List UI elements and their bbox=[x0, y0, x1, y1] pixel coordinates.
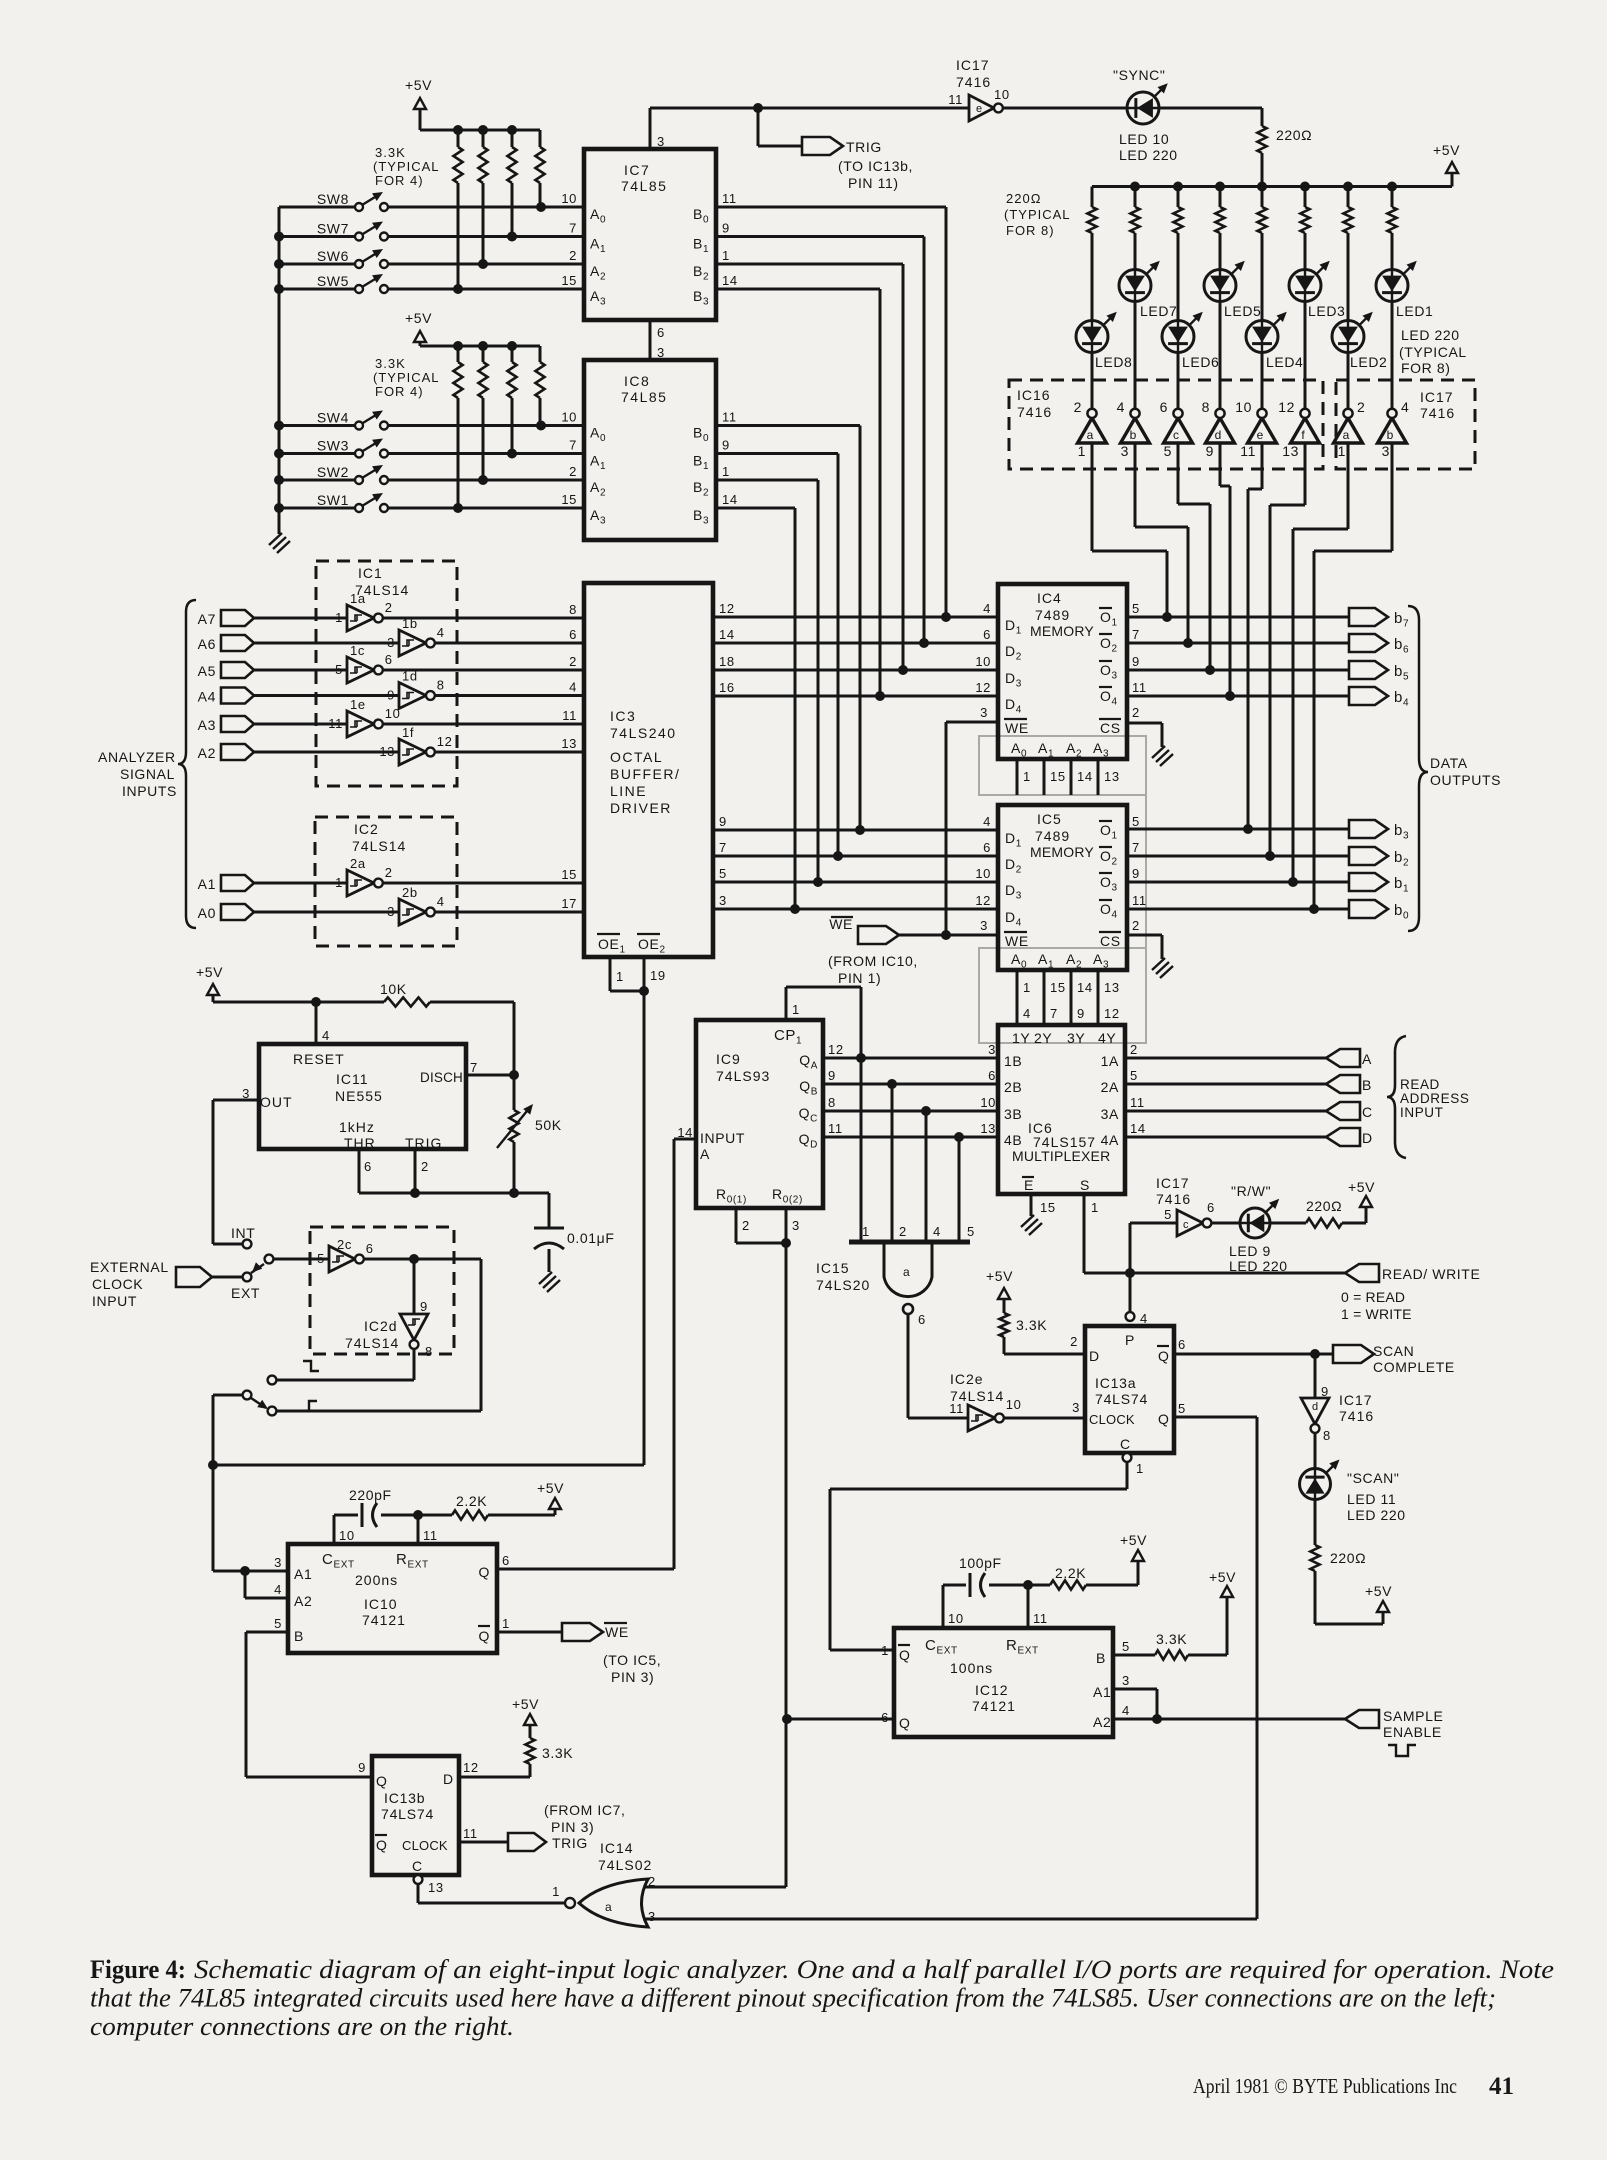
svg-text:2: 2 bbox=[569, 654, 577, 669]
svg-text:IC2d: IC2d bbox=[364, 1318, 398, 1334]
svg-text:6: 6 bbox=[983, 627, 991, 642]
svg-text:TRIG: TRIG bbox=[405, 1135, 442, 1151]
svg-text:3.3K: 3.3K bbox=[1156, 1631, 1187, 1647]
svg-text:74LS74: 74LS74 bbox=[381, 1806, 434, 1822]
svg-text:12: 12 bbox=[1278, 399, 1295, 415]
svg-text:19: 19 bbox=[650, 968, 666, 983]
svg-text:2.2K: 2.2K bbox=[456, 1493, 487, 1509]
svg-text:3B: 3B bbox=[1004, 1106, 1022, 1122]
svg-text:7416: 7416 bbox=[1420, 405, 1455, 421]
svg-text:A7: A7 bbox=[198, 611, 216, 627]
svg-text:6: 6 bbox=[502, 1553, 510, 1568]
svg-text:12: 12 bbox=[719, 601, 735, 616]
svg-text:7: 7 bbox=[719, 840, 727, 855]
svg-text:2a: 2a bbox=[350, 856, 366, 871]
svg-text:INPUTS: INPUTS bbox=[122, 783, 177, 799]
svg-text:10: 10 bbox=[385, 706, 401, 721]
svg-text:11: 11 bbox=[828, 1121, 843, 1136]
svg-text:(TYPICAL: (TYPICAL bbox=[373, 370, 440, 385]
svg-text:2: 2 bbox=[1132, 705, 1140, 720]
svg-text:IC5: IC5 bbox=[1037, 811, 1062, 827]
svg-text:A2: A2 bbox=[1093, 1714, 1111, 1730]
svg-text:LED 9: LED 9 bbox=[1229, 1243, 1271, 1259]
svg-text:13: 13 bbox=[1104, 769, 1120, 784]
svg-text:15: 15 bbox=[1050, 980, 1066, 995]
svg-text:6: 6 bbox=[1160, 399, 1168, 415]
svg-text:12: 12 bbox=[463, 1760, 479, 1775]
svg-text:FOR 8): FOR 8) bbox=[1401, 360, 1451, 376]
svg-text:IC9: IC9 bbox=[716, 1051, 741, 1067]
svg-text:Q: Q bbox=[1158, 1348, 1170, 1364]
svg-text:0.01μF: 0.01μF bbox=[567, 1230, 614, 1246]
svg-text:9: 9 bbox=[828, 1068, 836, 1083]
svg-text:2: 2 bbox=[1132, 918, 1140, 933]
svg-text:3.3K: 3.3K bbox=[375, 356, 406, 371]
svg-text:1kHz: 1kHz bbox=[339, 1119, 375, 1135]
svg-text:3A: 3A bbox=[1101, 1106, 1119, 1122]
svg-text:14: 14 bbox=[719, 627, 735, 642]
svg-text:11: 11 bbox=[948, 92, 963, 107]
svg-text:NE555: NE555 bbox=[335, 1088, 383, 1104]
svg-text:5: 5 bbox=[1132, 601, 1140, 616]
svg-text:PIN 1): PIN 1) bbox=[838, 970, 881, 986]
svg-text:(FROM IC10,: (FROM IC10, bbox=[828, 953, 918, 969]
svg-text:8: 8 bbox=[425, 1344, 433, 1359]
svg-text:4: 4 bbox=[569, 680, 577, 695]
svg-text:3Y: 3Y bbox=[1067, 1030, 1085, 1046]
svg-text:SW7: SW7 bbox=[317, 221, 349, 237]
svg-text:8: 8 bbox=[569, 602, 577, 617]
svg-text:10: 10 bbox=[339, 1528, 355, 1543]
svg-text:6: 6 bbox=[1207, 1200, 1215, 1215]
svg-text:1: 1 bbox=[1091, 1200, 1099, 1215]
svg-text:5: 5 bbox=[1178, 1401, 1186, 1416]
svg-text:13: 13 bbox=[379, 744, 395, 759]
svg-text:(FROM IC7,: (FROM IC7, bbox=[544, 1802, 625, 1818]
svg-text:220pF: 220pF bbox=[349, 1487, 392, 1503]
svg-text:+5V: +5V bbox=[1348, 1179, 1375, 1195]
svg-text:CLOCK: CLOCK bbox=[402, 1838, 448, 1853]
svg-text:4A: 4A bbox=[1101, 1132, 1119, 1148]
svg-text:7489: 7489 bbox=[1035, 607, 1070, 623]
svg-text:e: e bbox=[1257, 428, 1264, 442]
svg-text:LED3: LED3 bbox=[1308, 303, 1345, 319]
svg-text:+5V: +5V bbox=[405, 310, 432, 326]
svg-text:(TYPICAL: (TYPICAL bbox=[1399, 344, 1467, 360]
svg-text:LED 11: LED 11 bbox=[1347, 1491, 1396, 1507]
svg-text:5: 5 bbox=[1132, 814, 1140, 829]
svg-text:3: 3 bbox=[1122, 1673, 1130, 1688]
svg-text:74LS93: 74LS93 bbox=[716, 1068, 770, 1084]
svg-text:DISCH: DISCH bbox=[420, 1070, 463, 1085]
svg-text:3.3K: 3.3K bbox=[1016, 1317, 1047, 1333]
svg-text:10K: 10K bbox=[380, 981, 407, 997]
svg-text:1: 1 bbox=[552, 1884, 560, 1899]
svg-text:13: 13 bbox=[428, 1880, 444, 1895]
svg-text:6: 6 bbox=[364, 1159, 372, 1174]
svg-text:1: 1 bbox=[335, 875, 343, 890]
svg-text:+5V: +5V bbox=[1209, 1569, 1236, 1585]
svg-text:FOR 8): FOR 8) bbox=[1006, 223, 1055, 238]
svg-text:12: 12 bbox=[828, 1042, 844, 1057]
svg-text:11: 11 bbox=[722, 410, 737, 425]
svg-text:A1: A1 bbox=[198, 876, 216, 892]
svg-text:13: 13 bbox=[980, 1121, 996, 1136]
svg-text:1: 1 bbox=[722, 248, 730, 263]
svg-text:IC13b: IC13b bbox=[384, 1790, 425, 1806]
svg-text:LED 220: LED 220 bbox=[1229, 1258, 1288, 1274]
svg-text:FOR 4): FOR 4) bbox=[375, 384, 424, 399]
svg-text:10: 10 bbox=[980, 1095, 996, 1110]
svg-text:7: 7 bbox=[1132, 627, 1140, 642]
svg-text:2: 2 bbox=[385, 600, 393, 615]
svg-text:1: 1 bbox=[792, 1002, 800, 1017]
svg-text:6: 6 bbox=[657, 325, 665, 340]
svg-text:2Y: 2Y bbox=[1034, 1030, 1052, 1046]
svg-text:A0: A0 bbox=[198, 905, 216, 921]
svg-text:LED4: LED4 bbox=[1266, 354, 1303, 370]
svg-text:74LS240: 74LS240 bbox=[610, 725, 677, 741]
svg-text:Q: Q bbox=[899, 1715, 911, 1731]
svg-text:EXTERNAL: EXTERNAL bbox=[90, 1259, 169, 1275]
svg-text:that the 74L85 integrated circ: that the 74L85 integrated circuits used … bbox=[90, 1984, 1496, 2013]
svg-text:74L85: 74L85 bbox=[621, 389, 667, 405]
svg-text:9: 9 bbox=[1132, 866, 1140, 881]
svg-text:LED5: LED5 bbox=[1224, 303, 1261, 319]
svg-text:SW1: SW1 bbox=[317, 492, 349, 508]
svg-text:2: 2 bbox=[1130, 1042, 1138, 1057]
svg-text:IC2e: IC2e bbox=[950, 1371, 984, 1387]
svg-text:WE: WE bbox=[1005, 933, 1029, 949]
svg-text:3: 3 bbox=[387, 904, 395, 919]
svg-text:11: 11 bbox=[328, 716, 343, 731]
svg-text:4: 4 bbox=[274, 1582, 282, 1597]
svg-text:4: 4 bbox=[322, 1028, 330, 1043]
svg-text:LED7: LED7 bbox=[1140, 303, 1177, 319]
svg-text:2: 2 bbox=[569, 464, 577, 479]
svg-text:c: c bbox=[1183, 1219, 1189, 1231]
svg-text:9: 9 bbox=[387, 688, 395, 703]
svg-text:14: 14 bbox=[1130, 1121, 1146, 1136]
svg-text:5: 5 bbox=[317, 1251, 325, 1266]
svg-text:Figure 4:: Figure 4: bbox=[90, 1955, 186, 1984]
svg-text:9: 9 bbox=[358, 1760, 366, 1775]
svg-text:11: 11 bbox=[949, 1401, 964, 1416]
svg-text:SW6: SW6 bbox=[317, 248, 349, 264]
svg-text:A2: A2 bbox=[198, 745, 216, 761]
svg-text:2: 2 bbox=[1070, 1334, 1078, 1349]
svg-text:LED1: LED1 bbox=[1396, 303, 1433, 319]
svg-text:LED 220: LED 220 bbox=[1401, 327, 1460, 343]
svg-text:INPUT: INPUT bbox=[1400, 1105, 1444, 1120]
svg-text:7: 7 bbox=[1050, 1006, 1058, 1021]
svg-text:4: 4 bbox=[983, 814, 991, 829]
svg-text:10: 10 bbox=[561, 191, 577, 206]
svg-text:15: 15 bbox=[1050, 769, 1066, 784]
svg-text:ADDRESS: ADDRESS bbox=[1400, 1091, 1469, 1106]
svg-text:+5V: +5V bbox=[1433, 142, 1460, 158]
svg-text:16: 16 bbox=[719, 680, 735, 695]
svg-text:10: 10 bbox=[1235, 399, 1252, 415]
svg-text:LINE: LINE bbox=[610, 783, 647, 799]
svg-text:+5V: +5V bbox=[405, 77, 432, 93]
svg-text:CLOCK: CLOCK bbox=[1089, 1412, 1135, 1427]
svg-text:INT: INT bbox=[231, 1225, 255, 1241]
svg-text:5: 5 bbox=[967, 1224, 975, 1239]
svg-text:100pF: 100pF bbox=[959, 1555, 1002, 1571]
svg-text:IC13a: IC13a bbox=[1095, 1375, 1136, 1391]
svg-text:P: P bbox=[1125, 1332, 1135, 1348]
svg-text:6: 6 bbox=[385, 652, 393, 667]
svg-text:1: 1 bbox=[1136, 1461, 1144, 1476]
svg-text:7: 7 bbox=[569, 221, 577, 236]
svg-text:Q: Q bbox=[376, 1773, 388, 1789]
svg-text:IC11: IC11 bbox=[336, 1071, 369, 1087]
svg-text:2: 2 bbox=[569, 248, 577, 263]
svg-text:S: S bbox=[1080, 1177, 1090, 1193]
svg-text:1: 1 bbox=[1023, 769, 1031, 784]
svg-text:IC15: IC15 bbox=[816, 1260, 850, 1276]
svg-text:LED8: LED8 bbox=[1095, 354, 1132, 370]
svg-text:220Ω: 220Ω bbox=[1006, 191, 1041, 206]
svg-text:7416: 7416 bbox=[1017, 404, 1052, 420]
svg-text:12: 12 bbox=[437, 734, 453, 749]
svg-text:7416: 7416 bbox=[1339, 1408, 1374, 1424]
svg-text:3: 3 bbox=[1072, 1400, 1080, 1415]
svg-text:C: C bbox=[1120, 1436, 1131, 1452]
svg-text:INPUT: INPUT bbox=[92, 1293, 137, 1309]
svg-text:IC4: IC4 bbox=[1037, 590, 1062, 606]
svg-text:PIN 11): PIN 11) bbox=[848, 175, 899, 191]
svg-text:DRIVER: DRIVER bbox=[610, 800, 672, 816]
svg-text:IC1: IC1 bbox=[358, 565, 383, 581]
svg-text:3: 3 bbox=[648, 1909, 656, 1924]
svg-text:12: 12 bbox=[975, 680, 991, 695]
svg-text:11: 11 bbox=[463, 1826, 478, 1841]
svg-text:18: 18 bbox=[719, 654, 735, 669]
svg-text:A1: A1 bbox=[1093, 1684, 1111, 1700]
svg-text:LED6: LED6 bbox=[1182, 354, 1219, 370]
svg-text:A3: A3 bbox=[198, 717, 216, 733]
svg-text:SW8: SW8 bbox=[317, 191, 349, 207]
svg-text:IC7: IC7 bbox=[624, 162, 650, 178]
svg-text:2.2K: 2.2K bbox=[1055, 1565, 1086, 1581]
svg-text:LED2: LED2 bbox=[1350, 354, 1387, 370]
svg-text:200ns: 200ns bbox=[355, 1572, 398, 1588]
svg-text:220Ω: 220Ω bbox=[1276, 127, 1312, 143]
svg-text:IC2: IC2 bbox=[354, 821, 379, 837]
svg-text:11: 11 bbox=[423, 1528, 438, 1543]
svg-text:EXT: EXT bbox=[231, 1285, 260, 1301]
svg-text:2b: 2b bbox=[402, 885, 418, 900]
svg-text:74121: 74121 bbox=[972, 1698, 1016, 1714]
svg-text:READ: READ bbox=[1400, 1077, 1440, 1092]
svg-text:1: 1 bbox=[502, 1616, 510, 1631]
svg-text:MEMORY: MEMORY bbox=[1030, 623, 1094, 639]
svg-text:7: 7 bbox=[1132, 840, 1140, 855]
svg-text:b: b bbox=[1130, 428, 1137, 442]
svg-text:IC8: IC8 bbox=[624, 373, 650, 389]
svg-text:74LS14: 74LS14 bbox=[352, 838, 406, 854]
svg-text:Q: Q bbox=[376, 1837, 388, 1853]
svg-text:D: D bbox=[443, 1771, 454, 1787]
svg-text:12: 12 bbox=[1104, 1006, 1120, 1021]
svg-text:15: 15 bbox=[1040, 1200, 1056, 1215]
svg-text:1: 1 bbox=[862, 1224, 870, 1239]
svg-text:April 1981 © BYTE Publications: April 1981 © BYTE Publications Inc bbox=[1193, 2074, 1457, 2098]
svg-text:d: d bbox=[1312, 1401, 1318, 1413]
svg-text:11: 11 bbox=[722, 191, 737, 206]
svg-text:15: 15 bbox=[561, 492, 577, 507]
svg-text:1: 1 bbox=[722, 464, 730, 479]
svg-text:C: C bbox=[1362, 1104, 1373, 1120]
svg-text:11: 11 bbox=[1132, 893, 1147, 908]
svg-text:A: A bbox=[1362, 1051, 1372, 1067]
svg-text:"R/W": "R/W" bbox=[1231, 1183, 1271, 1199]
svg-text:7416: 7416 bbox=[956, 74, 991, 90]
svg-text:A6: A6 bbox=[198, 636, 216, 652]
svg-text:SW3: SW3 bbox=[317, 438, 349, 454]
svg-text:2B: 2B bbox=[1004, 1079, 1022, 1095]
svg-text:14: 14 bbox=[722, 273, 738, 288]
svg-text:2: 2 bbox=[742, 1218, 750, 1233]
svg-text:(TO IC5,: (TO IC5, bbox=[603, 1652, 661, 1668]
svg-text:7: 7 bbox=[470, 1060, 478, 1075]
svg-text:11: 11 bbox=[1240, 443, 1256, 459]
svg-text:10: 10 bbox=[994, 87, 1010, 102]
svg-text:1: 1 bbox=[616, 969, 624, 984]
svg-text:14: 14 bbox=[1077, 769, 1093, 784]
svg-text:4: 4 bbox=[1023, 1006, 1031, 1021]
svg-text:4: 4 bbox=[933, 1224, 941, 1239]
svg-text:10: 10 bbox=[975, 866, 991, 881]
svg-text:3: 3 bbox=[980, 918, 988, 933]
svg-text:1a: 1a bbox=[350, 591, 366, 606]
svg-text:6: 6 bbox=[918, 1312, 926, 1327]
svg-text:3: 3 bbox=[657, 134, 665, 149]
svg-text:50K: 50K bbox=[535, 1117, 562, 1133]
svg-text:IC17: IC17 bbox=[956, 57, 990, 73]
svg-text:5: 5 bbox=[1122, 1639, 1130, 1654]
svg-text:220Ω: 220Ω bbox=[1306, 1198, 1342, 1214]
svg-text:computer connections are on th: computer connections are on the right. bbox=[90, 2012, 514, 2041]
svg-text:E: E bbox=[1024, 1177, 1034, 1193]
svg-text:13: 13 bbox=[1282, 443, 1299, 459]
svg-text:6: 6 bbox=[569, 627, 577, 642]
svg-text:+5V: +5V bbox=[537, 1480, 564, 1496]
svg-text:READ/ WRITE: READ/ WRITE bbox=[1382, 1266, 1480, 1282]
svg-text:5: 5 bbox=[719, 866, 727, 881]
svg-text:"SYNC": "SYNC" bbox=[1113, 67, 1165, 83]
svg-text:CS: CS bbox=[1100, 720, 1121, 736]
svg-text:WE: WE bbox=[829, 916, 853, 932]
svg-text:1Y: 1Y bbox=[1012, 1030, 1030, 1046]
svg-text:5: 5 bbox=[335, 662, 343, 677]
svg-text:1e: 1e bbox=[350, 697, 366, 712]
svg-text:+5V: +5V bbox=[1365, 1583, 1392, 1599]
svg-text:ENABLE: ENABLE bbox=[1383, 1724, 1442, 1740]
svg-text:MEMORY: MEMORY bbox=[1030, 844, 1094, 860]
svg-text:TRIG: TRIG bbox=[846, 139, 882, 155]
svg-text:A: A bbox=[700, 1146, 710, 1162]
svg-text:9: 9 bbox=[1077, 1006, 1085, 1021]
svg-text:74L85: 74L85 bbox=[621, 178, 667, 194]
svg-text:IC10: IC10 bbox=[364, 1596, 398, 1612]
svg-text:6: 6 bbox=[983, 840, 991, 855]
svg-text:6: 6 bbox=[1178, 1337, 1186, 1352]
svg-text:4: 4 bbox=[983, 601, 991, 616]
svg-text:2: 2 bbox=[385, 865, 393, 880]
svg-text:13: 13 bbox=[561, 736, 577, 751]
svg-text:SIGNAL: SIGNAL bbox=[120, 766, 175, 782]
svg-text:SCAN: SCAN bbox=[1373, 1343, 1414, 1359]
svg-text:3: 3 bbox=[792, 1218, 800, 1233]
svg-text:1b: 1b bbox=[402, 616, 418, 631]
svg-text:c: c bbox=[1173, 428, 1179, 442]
svg-text:1: 1 bbox=[1078, 443, 1086, 459]
svg-text:7489: 7489 bbox=[1035, 828, 1070, 844]
svg-text:D: D bbox=[1362, 1130, 1373, 1146]
svg-text:IC17: IC17 bbox=[1156, 1175, 1190, 1191]
svg-text:1f: 1f bbox=[402, 725, 414, 740]
svg-text:11: 11 bbox=[562, 708, 577, 723]
svg-text:Q: Q bbox=[479, 1564, 491, 1580]
svg-text:DATA: DATA bbox=[1430, 755, 1468, 771]
svg-text:IC14: IC14 bbox=[600, 1840, 634, 1856]
svg-text:5: 5 bbox=[1130, 1068, 1138, 1083]
svg-text:12: 12 bbox=[975, 893, 991, 908]
svg-text:IC3: IC3 bbox=[610, 708, 636, 724]
svg-text:TRIG: TRIG bbox=[552, 1835, 588, 1851]
svg-text:OUT: OUT bbox=[260, 1094, 293, 1110]
svg-text:3: 3 bbox=[1121, 443, 1129, 459]
svg-text:COMPLETE: COMPLETE bbox=[1373, 1359, 1455, 1375]
svg-text:4B: 4B bbox=[1004, 1132, 1022, 1148]
svg-text:9: 9 bbox=[722, 438, 730, 453]
svg-text:1d: 1d bbox=[402, 669, 418, 684]
svg-text:IC17: IC17 bbox=[1420, 389, 1454, 405]
svg-text:WE: WE bbox=[1005, 720, 1029, 736]
svg-text:PIN 3): PIN 3) bbox=[551, 1819, 594, 1835]
svg-text:a: a bbox=[1343, 428, 1350, 442]
svg-text:OCTAL: OCTAL bbox=[610, 749, 663, 765]
svg-text:14: 14 bbox=[1077, 980, 1093, 995]
svg-text:3: 3 bbox=[387, 635, 395, 650]
svg-text:LED 220: LED 220 bbox=[1119, 147, 1178, 163]
svg-text:3: 3 bbox=[1382, 443, 1390, 459]
svg-text:4: 4 bbox=[1401, 399, 1409, 415]
svg-text:A1: A1 bbox=[294, 1566, 312, 1582]
svg-text:1A: 1A bbox=[1101, 1053, 1119, 1069]
svg-text:74LS14: 74LS14 bbox=[345, 1335, 399, 1351]
svg-text:B: B bbox=[1096, 1650, 1106, 1666]
svg-text:MULTIPLEXER: MULTIPLEXER bbox=[1012, 1148, 1110, 1164]
svg-text:17: 17 bbox=[561, 896, 577, 911]
svg-text:74LS02: 74LS02 bbox=[598, 1857, 652, 1873]
svg-text:3.3K: 3.3K bbox=[375, 145, 406, 160]
svg-text:8: 8 bbox=[1323, 1428, 1331, 1443]
svg-text:a: a bbox=[1087, 428, 1094, 442]
svg-text:LED 220: LED 220 bbox=[1347, 1507, 1406, 1523]
svg-text:PIN 3): PIN 3) bbox=[611, 1669, 654, 1685]
svg-text:5: 5 bbox=[1164, 443, 1172, 459]
svg-text:IC12: IC12 bbox=[975, 1682, 1009, 1698]
svg-text:3: 3 bbox=[274, 1555, 282, 1570]
svg-text:3: 3 bbox=[719, 893, 727, 908]
svg-text:0 = READ: 0 = READ bbox=[1341, 1289, 1405, 1305]
svg-text:11: 11 bbox=[1130, 1095, 1145, 1110]
svg-text:A5: A5 bbox=[198, 663, 216, 679]
